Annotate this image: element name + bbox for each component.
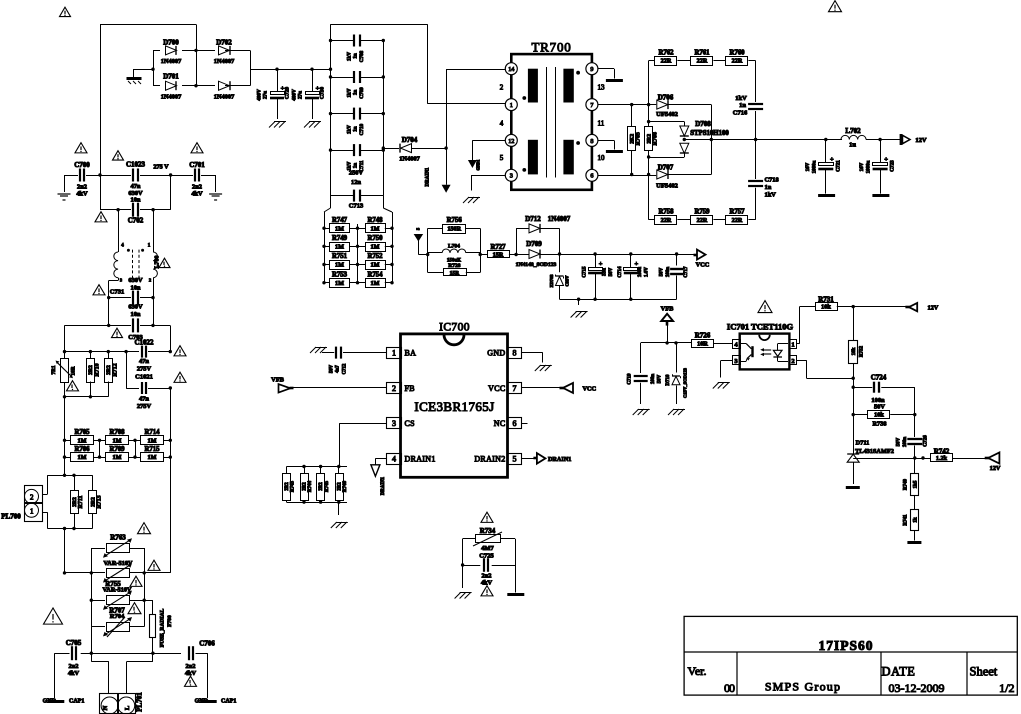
- svg-text:R765: R765: [636, 132, 642, 145]
- svg-text:10n: 10n: [131, 197, 141, 204]
- svg-text:DATE: DATE: [882, 665, 916, 679]
- svg-text:D700: D700: [163, 39, 179, 47]
- svg-text:8: 8: [513, 349, 517, 358]
- svg-text:16V: 16V: [860, 162, 865, 171]
- svg-text:1M: 1M: [371, 225, 380, 232]
- svg-text:1u: 1u: [849, 142, 856, 149]
- svg-text:Sheet: Sheet: [970, 665, 998, 679]
- svg-text:C702: C702: [128, 217, 144, 225]
- svg-text:GND1: GND1: [476, 160, 481, 171]
- svg-text:C724: C724: [871, 374, 887, 382]
- svg-text:6: 6: [513, 419, 517, 428]
- svg-text:100n: 100n: [903, 437, 908, 448]
- svg-text:C723: C723: [890, 160, 896, 172]
- svg-text:Ver.: Ver.: [688, 664, 707, 678]
- svg-text:C710: C710: [359, 123, 365, 135]
- svg-text:1M: 1M: [335, 280, 344, 287]
- svg-text:1M: 1M: [113, 437, 122, 444]
- svg-text:D706: D706: [658, 93, 674, 101]
- svg-text:F700: F700: [167, 615, 173, 627]
- svg-text:1kV: 1kV: [348, 52, 353, 61]
- svg-text:R713: R713: [97, 495, 103, 508]
- svg-text:C706: C706: [199, 640, 215, 648]
- svg-text:D711: D711: [856, 440, 870, 447]
- svg-text:7R1: 7R1: [51, 365, 57, 374]
- svg-text:12: 12: [508, 138, 514, 145]
- svg-text:R734: R734: [480, 527, 496, 535]
- svg-text:4: 4: [734, 342, 738, 349]
- svg-text:R726: R726: [695, 332, 711, 340]
- svg-text:R727: R727: [490, 244, 506, 251]
- svg-text:2R2: 2R2: [90, 497, 96, 507]
- svg-text:15R: 15R: [450, 271, 461, 277]
- svg-text:2n2: 2n2: [77, 184, 87, 191]
- svg-text:1n: 1n: [354, 53, 359, 59]
- svg-text:C731: C731: [110, 289, 124, 296]
- svg-text:R744: R744: [308, 480, 313, 492]
- svg-text:630V: 630V: [128, 277, 143, 284]
- svg-text:NC: NC: [494, 419, 506, 428]
- svg-text:1n: 1n: [765, 184, 772, 191]
- svg-text:D701: D701: [163, 73, 179, 81]
- svg-text:C719: C719: [628, 373, 633, 385]
- svg-text:10: 10: [598, 154, 606, 162]
- svg-text:1M: 1M: [371, 243, 380, 250]
- svg-text:1.2k: 1.2k: [936, 455, 948, 462]
- svg-text:1M: 1M: [335, 243, 344, 250]
- svg-text:D708: D708: [695, 120, 711, 128]
- svg-text:D704: D704: [402, 136, 418, 144]
- svg-text:2R2: 2R2: [106, 365, 112, 375]
- svg-text:3: 3: [510, 173, 513, 180]
- svg-text:IC700: IC700: [439, 322, 470, 334]
- svg-text:2R2: 2R2: [303, 482, 308, 491]
- svg-text:PL700: PL700: [1, 513, 21, 521]
- svg-text:R766: R766: [653, 132, 659, 145]
- svg-text:TL431SAMF2: TL431SAMF2: [855, 448, 894, 455]
- svg-text:6: 6: [590, 173, 593, 180]
- svg-text:FUSE_RADIAL: FUSE_RADIAL: [160, 608, 166, 647]
- svg-text:1N4007: 1N4007: [548, 215, 571, 223]
- svg-text:12V: 12V: [915, 137, 927, 144]
- svg-text:2n2: 2n2: [186, 663, 196, 670]
- svg-text:N: N: [102, 705, 109, 710]
- svg-text:R749: R749: [332, 235, 348, 242]
- svg-text:1n: 1n: [739, 102, 746, 109]
- svg-text:GND: GND: [195, 699, 209, 705]
- svg-text:D710: D710: [666, 374, 671, 386]
- svg-text:1M: 1M: [371, 262, 380, 269]
- svg-text:22R: 22R: [732, 217, 743, 224]
- svg-text:CAP1: CAP1: [221, 699, 236, 705]
- svg-text:2R2: 2R2: [337, 482, 342, 491]
- svg-text:9: 9: [590, 66, 593, 73]
- svg-text:1kV: 1kV: [765, 192, 777, 199]
- svg-text:1M: 1M: [335, 262, 344, 269]
- svg-text:1: 1: [392, 349, 396, 358]
- svg-text:50V: 50V: [660, 267, 665, 276]
- svg-text:1k: 1k: [914, 517, 919, 523]
- svg-text:C714: C714: [618, 266, 623, 278]
- svg-text:L: L: [124, 705, 131, 710]
- svg-text:DRAIN1: DRAIN1: [426, 167, 431, 186]
- svg-text:C33V: C33V: [565, 275, 570, 287]
- svg-text:7: 7: [513, 384, 517, 393]
- svg-text:R752: R752: [367, 253, 383, 260]
- svg-text:10R: 10R: [71, 366, 77, 375]
- svg-text:1kV: 1kV: [348, 88, 353, 97]
- svg-text:1n: 1n: [354, 90, 359, 96]
- svg-text:5: 5: [513, 454, 517, 463]
- svg-text:250V: 250V: [349, 170, 364, 177]
- svg-text:ICE3BR1765J: ICE3BR1765J: [414, 399, 494, 414]
- svg-text:C700: C700: [74, 161, 90, 169]
- svg-text:03-12-2009: 03-12-2009: [889, 681, 945, 695]
- svg-text:100n: 100n: [666, 267, 671, 278]
- svg-text:7: 7: [590, 102, 593, 109]
- svg-text:1M: 1M: [78, 437, 87, 444]
- svg-text:VCC: VCC: [583, 386, 597, 393]
- svg-text:UF5402: UF5402: [656, 183, 678, 190]
- svg-text:IC701 TCET110G: IC701 TCET110G: [727, 322, 794, 332]
- svg-text:1M: 1M: [113, 454, 122, 461]
- svg-text:R740: R740: [904, 478, 909, 490]
- svg-text:1N4007: 1N4007: [161, 94, 182, 101]
- svg-text:R706: R706: [74, 446, 90, 453]
- svg-text:UF5402: UF5402: [656, 111, 678, 118]
- svg-text:R741: R741: [904, 514, 909, 526]
- svg-text:150R: 150R: [447, 226, 461, 233]
- svg-text:C708: C708: [359, 50, 365, 62]
- svg-text:15R: 15R: [493, 252, 504, 259]
- svg-text:4: 4: [392, 454, 396, 463]
- svg-text:VAR-510V: VAR-510V: [103, 587, 132, 594]
- svg-text:C730: C730: [320, 87, 326, 99]
- svg-text:D707: D707: [658, 163, 674, 171]
- svg-text:D702: D702: [216, 39, 232, 47]
- svg-text:14: 14: [508, 66, 514, 73]
- svg-text:C701: C701: [189, 161, 205, 169]
- svg-text:1M: 1M: [335, 225, 344, 232]
- svg-text:2R2: 2R2: [285, 482, 290, 491]
- svg-text:1M: 1M: [371, 280, 380, 287]
- svg-text:R712: R712: [112, 363, 118, 376]
- svg-text:11: 11: [598, 120, 605, 128]
- svg-text:DRAIN1: DRAIN1: [381, 476, 386, 495]
- svg-text:C715: C715: [583, 266, 588, 278]
- svg-text:2R2: 2R2: [319, 482, 324, 491]
- svg-text:R760: R760: [729, 49, 745, 56]
- svg-text:R728: R728: [448, 263, 460, 269]
- svg-text:1.6V: 1.6V: [645, 267, 650, 277]
- svg-text:22R: 22R: [732, 58, 743, 65]
- svg-text:2R2: 2R2: [88, 365, 94, 375]
- svg-text:C1023: C1023: [126, 161, 146, 169]
- svg-text:DRAIN2: DRAIN2: [474, 454, 505, 463]
- svg-text:00: 00: [724, 681, 735, 695]
- svg-text:DRAIN1: DRAIN1: [548, 456, 571, 463]
- svg-text:D712: D712: [525, 215, 541, 223]
- svg-text:VFB: VFB: [271, 377, 285, 384]
- svg-text:L702: L702: [845, 127, 861, 135]
- svg-text:10R: 10R: [697, 341, 708, 348]
- svg-text:2: 2: [791, 358, 794, 365]
- svg-text:C705: C705: [66, 639, 82, 647]
- svg-text:47n: 47n: [139, 358, 149, 365]
- svg-text:GND: GND: [487, 349, 505, 358]
- svg-text:4kV: 4kV: [191, 191, 203, 198]
- svg-text:R751: R751: [332, 253, 348, 260]
- svg-text:33u: 33u: [603, 268, 608, 276]
- svg-text:1N4007: 1N4007: [214, 94, 235, 101]
- svg-text:C1022: C1022: [134, 339, 154, 347]
- svg-text:C725: C725: [479, 553, 494, 560]
- svg-text:1/2: 1/2: [999, 681, 1014, 695]
- svg-text:R757: R757: [729, 208, 745, 215]
- svg-text:100u: 100u: [638, 267, 643, 278]
- svg-text:C721: C721: [836, 160, 842, 172]
- svg-text:4: 4: [121, 244, 124, 249]
- svg-text:1: 1: [30, 508, 34, 516]
- svg-text:1kV: 1kV: [735, 95, 747, 102]
- svg-text:R714: R714: [144, 429, 160, 436]
- svg-text:16V: 16V: [806, 162, 811, 171]
- svg-text:3: 3: [392, 419, 396, 428]
- svg-text:10n: 10n: [131, 285, 141, 292]
- svg-text:+: +: [634, 261, 638, 268]
- svg-text:50V: 50V: [658, 374, 663, 383]
- svg-text:1n: 1n: [354, 126, 359, 132]
- svg-text:1N4007: 1N4007: [399, 156, 420, 163]
- svg-text:27u: 27u: [298, 91, 304, 99]
- svg-text:C717: C717: [684, 266, 689, 278]
- svg-text:R743: R743: [291, 480, 296, 492]
- svg-text:1kV: 1kV: [348, 125, 353, 134]
- svg-text:13: 13: [598, 84, 606, 92]
- svg-text:2K2: 2K2: [630, 134, 636, 144]
- svg-text:2n2: 2n2: [482, 573, 492, 580]
- svg-text:12V: 12V: [928, 305, 939, 312]
- svg-text:2n2: 2n2: [69, 663, 79, 670]
- svg-text:R746: R746: [343, 480, 348, 492]
- svg-text:2R2: 2R2: [72, 497, 78, 507]
- svg-text:D709: D709: [526, 240, 542, 248]
- svg-text:50V: 50V: [897, 437, 902, 446]
- svg-text:R705: R705: [74, 429, 90, 436]
- svg-text:R738: R738: [873, 421, 887, 428]
- svg-text:1n: 1n: [354, 163, 359, 169]
- svg-text:R750: R750: [367, 235, 383, 242]
- svg-text:R709: R709: [109, 446, 125, 453]
- svg-text:PL701: PL701: [136, 692, 144, 712]
- svg-text:+: +: [830, 156, 834, 163]
- svg-text:4kV: 4kV: [76, 191, 88, 198]
- svg-text:R711: R711: [78, 495, 84, 508]
- svg-text:DRAIN1: DRAIN1: [405, 454, 436, 463]
- svg-text:630V: 630V: [128, 304, 143, 311]
- svg-text:2: 2: [149, 278, 152, 283]
- svg-text:1N4007: 1N4007: [161, 58, 182, 65]
- svg-text:12V: 12V: [990, 465, 1001, 472]
- svg-text:1M: 1M: [148, 437, 157, 444]
- svg-text:C15V_SOD123: C15V_SOD123: [683, 367, 688, 398]
- svg-text:10k: 10k: [821, 304, 831, 311]
- svg-text:VFB: VFB: [661, 306, 675, 313]
- svg-text:100n: 100n: [651, 374, 656, 385]
- svg-text:STPS10H100: STPS10H100: [690, 130, 729, 137]
- svg-text:1M: 1M: [78, 454, 87, 461]
- svg-text:1N4148_SOD123: 1N4148_SOD123: [516, 262, 557, 268]
- svg-text:R710: R710: [94, 363, 100, 376]
- svg-text:50V: 50V: [609, 267, 614, 276]
- svg-text:R758: R758: [658, 208, 674, 215]
- svg-text:22R: 22R: [697, 58, 708, 65]
- svg-text:C1021: C1021: [135, 374, 153, 381]
- svg-text:1M: 1M: [148, 454, 157, 461]
- svg-text:4n7: 4n7: [336, 365, 341, 373]
- svg-text:4M7: 4M7: [481, 545, 494, 552]
- svg-text:R715: R715: [144, 446, 160, 453]
- svg-text:R762: R762: [658, 49, 674, 56]
- svg-text:CAP1: CAP1: [69, 699, 84, 705]
- svg-text:R763: R763: [110, 534, 126, 542]
- svg-text:1000u: 1000u: [813, 160, 818, 173]
- svg-text:50V: 50V: [874, 404, 885, 411]
- svg-text:R754: R754: [367, 271, 383, 278]
- svg-text:C709: C709: [359, 87, 365, 99]
- svg-text:1: 1: [510, 102, 513, 109]
- svg-text:+: +: [884, 156, 888, 163]
- svg-text:22R: 22R: [661, 58, 672, 65]
- svg-text:C726: C726: [923, 435, 929, 447]
- svg-text:BA: BA: [405, 349, 417, 358]
- svg-text:50V: 50V: [330, 364, 335, 373]
- svg-text:17IPS60: 17IPS60: [818, 638, 873, 653]
- svg-text:R759: R759: [694, 208, 710, 215]
- svg-text:22R: 22R: [661, 217, 672, 224]
- svg-text:8: 8: [590, 138, 593, 145]
- svg-text:10k: 10k: [852, 347, 857, 355]
- svg-text:1N4007: 1N4007: [214, 58, 235, 65]
- svg-text:R732: R732: [860, 345, 865, 357]
- svg-text:C713: C713: [349, 203, 364, 210]
- svg-text:12n: 12n: [351, 179, 361, 186]
- svg-text:1000u: 1000u: [867, 160, 872, 173]
- svg-text:4: 4: [500, 120, 504, 128]
- svg-text:5: 5: [500, 154, 504, 162]
- svg-text:ZD703: ZD703: [549, 274, 554, 288]
- svg-text:VCC: VCC: [488, 384, 505, 393]
- svg-text:R761: R761: [694, 49, 710, 56]
- svg-text:R747: R747: [332, 217, 348, 224]
- svg-text:275 V: 275 V: [153, 164, 169, 171]
- svg-text:VCC: VCC: [696, 262, 710, 269]
- svg-text:2: 2: [30, 493, 34, 501]
- svg-text:10k: 10k: [874, 412, 884, 419]
- svg-text:10n: 10n: [131, 311, 141, 318]
- svg-text:+: +: [599, 261, 603, 268]
- svg-text:FB: FB: [405, 384, 415, 393]
- svg-text:275V: 275V: [137, 403, 152, 410]
- svg-text:1: 1: [148, 244, 151, 249]
- svg-text:R756: R756: [447, 217, 463, 224]
- svg-text:TR700: TR700: [531, 40, 571, 55]
- svg-text:R748: R748: [367, 217, 383, 224]
- svg-text:1: 1: [791, 342, 794, 349]
- svg-text:2R2: 2R2: [646, 134, 652, 144]
- svg-text:C729: C729: [285, 87, 291, 99]
- svg-text:22R: 22R: [697, 217, 708, 224]
- svg-text:SMPS Group: SMPS Group: [765, 680, 841, 694]
- svg-text:2n2: 2n2: [192, 184, 202, 191]
- svg-text:R745: R745: [325, 480, 330, 492]
- svg-text:47n: 47n: [139, 396, 149, 403]
- svg-text:2: 2: [500, 84, 504, 92]
- svg-text:4kV: 4kV: [68, 670, 80, 677]
- svg-text:275V: 275V: [137, 366, 152, 373]
- svg-text:27u: 27u: [263, 91, 269, 99]
- svg-text:R753: R753: [332, 271, 348, 278]
- svg-text:C718: C718: [765, 177, 779, 184]
- svg-text:C716: C716: [733, 110, 748, 117]
- svg-text:R708: R708: [109, 429, 125, 436]
- svg-text:C712: C712: [343, 363, 348, 374]
- svg-text:GND: GND: [43, 699, 57, 705]
- svg-text:2: 2: [392, 384, 396, 393]
- svg-text:CS: CS: [405, 419, 415, 428]
- svg-text:5: 5: [416, 227, 421, 230]
- svg-text:3: 3: [120, 278, 123, 283]
- svg-text:1k5: 1k5: [914, 480, 919, 488]
